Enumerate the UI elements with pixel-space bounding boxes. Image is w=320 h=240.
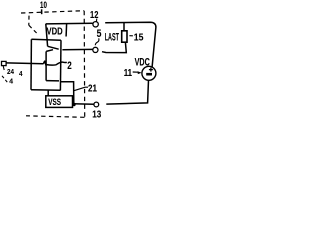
svg-text:21: 21 xyxy=(88,84,97,95)
terminal 12 circle xyxy=(93,22,98,27)
plus sign inside source xyxy=(150,68,152,72)
terminal 5 circle xyxy=(93,47,98,52)
wire terminal 5 to load component xyxy=(102,42,126,52)
dashed diagonal leader for label 4 xyxy=(2,76,8,83)
bottom wire terminal 13 to VDC source xyxy=(106,80,148,104)
svg-text:VSS: VSS xyxy=(48,97,61,108)
svg-text:VDD: VDD xyxy=(47,26,64,37)
inner transistor box 2 xyxy=(46,50,53,52)
svg-text:12: 12 xyxy=(90,10,99,21)
leader tick for label 10 xyxy=(41,9,43,14)
wavy leader to label 2 xyxy=(47,62,67,65)
input wire from terminal 14 xyxy=(6,62,44,65)
load component 15 box xyxy=(122,31,127,42)
svg-text:2: 2 xyxy=(67,60,72,72)
background xyxy=(0,0,160,120)
wire VDD top rail to terminal 12 xyxy=(46,22,93,25)
step wire from conductor to output node xyxy=(61,82,74,105)
hook at input wire end xyxy=(44,61,47,65)
drop wire into VSS box xyxy=(47,91,49,96)
leader tick for label 12 xyxy=(95,19,97,22)
block VSS box xyxy=(46,96,73,108)
svg-text:10: 10 xyxy=(40,0,47,10)
svg-text:VDC: VDC xyxy=(135,56,150,68)
svg-text:13: 13 xyxy=(92,109,101,120)
wire VDD corner to terminal 5 xyxy=(48,46,59,49)
dashed enclosure left diagonal segment xyxy=(29,25,37,33)
svg-text:15: 15 xyxy=(134,31,144,43)
dashed enclosure right edge xyxy=(83,11,86,117)
svg-text:LAST: LAST xyxy=(105,31,119,43)
left enclosure top edge / VDD box bottom xyxy=(31,39,61,40)
svg-text:5: 5 xyxy=(97,28,102,40)
leader squiggle for label 5 xyxy=(95,38,99,45)
leader dash for label 15 xyxy=(129,35,133,37)
main vertical conductor (VDD right edge down to bottom) xyxy=(59,40,62,90)
block VDD box xyxy=(46,24,48,46)
left enclosure left edge xyxy=(30,39,32,90)
dashed enclosure bottom edge xyxy=(26,116,85,118)
terminal 13 circle xyxy=(94,102,99,107)
leader tick below input terminal xyxy=(2,66,5,70)
junction dot xyxy=(72,103,75,106)
leader dash for label 11 xyxy=(133,71,138,73)
load component 15 top lead xyxy=(123,23,125,31)
svg-text:24: 24 xyxy=(7,69,14,76)
left enclosure bottom wire xyxy=(31,89,61,92)
svg-text:11: 11 xyxy=(124,67,132,79)
input terminal square xyxy=(2,61,7,65)
leader for label 21 xyxy=(74,87,88,91)
voltage source VDC circle 11 xyxy=(142,66,156,80)
wire terminal 12 to top-right corner xyxy=(105,22,156,67)
dashed enclosure top edge (package 10) xyxy=(21,11,84,13)
minus bar inside source xyxy=(146,73,152,76)
dashed enclosure left partial edge xyxy=(28,16,30,26)
bottom wire VSS to terminal 13 xyxy=(73,103,94,106)
